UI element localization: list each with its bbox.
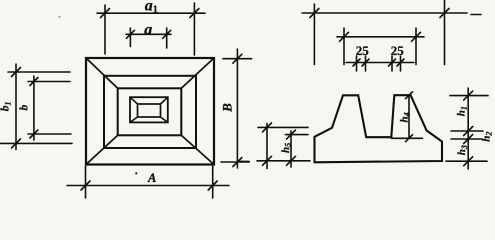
section top dimension line 1: overshoot dash: [471, 14, 481, 16]
svg-text:A: A: [147, 171, 156, 185]
svg-text:a1: a1: [145, 0, 158, 16]
plan view: cup corner diagonal bottom-left: [130, 117, 138, 122]
plan view: cup corner diagonal top-left: [130, 97, 138, 104]
dimension b: bottom tick: [30, 130, 38, 138]
dimension h5 outer: top extension line: [258, 126, 308, 128]
right chain: tick 3: [464, 135, 473, 144]
right chain: extension line at base bottom: [446, 160, 487, 162]
section top dimension 2: left extension line: [343, 28, 345, 65]
right chain: tick 4: [464, 157, 473, 166]
dimension a1: dimension line: [97, 12, 205, 14]
dimension h5 inner: top tick: [287, 130, 296, 139]
plan view: corner diagonal bottom-right: [181, 135, 214, 164]
dimension b1: bottom tick: [12, 139, 21, 148]
plan view: cup opening outer rectangle: [130, 97, 168, 122]
dimension a1: right extension line: [193, 3, 195, 55]
dimension h5 outer: bottom extension dash: [240, 160, 249, 162]
svg-text:h3: h3: [456, 145, 469, 155]
right chain: extension line at shoulder: [451, 130, 483, 132]
plan view: cup opening inner rectangle: [138, 104, 161, 117]
dimension 25 right: tick 1: [389, 59, 396, 66]
dimension 25 left: tick 1: [353, 59, 360, 66]
dimension h4: bottom extension line: [392, 137, 423, 139]
dimension b: top tick: [30, 78, 38, 86]
section top dimension 2: right extension line: [415, 28, 417, 65]
dimension a: right tick: [163, 30, 171, 38]
dimension 25 right: tick 2: [397, 59, 404, 66]
dimension b: top extension line: [28, 81, 70, 83]
dimension a1: right tick: [190, 9, 199, 18]
svg-text:a: a: [144, 22, 152, 39]
dimension b1: dimension line: [15, 64, 17, 150]
svg-text:h1: h1: [456, 106, 469, 116]
dimension h4: bottom tick: [406, 135, 413, 142]
dimension a: right extension line: [166, 28, 168, 48]
dimension h5 inner: bottom tick: [287, 156, 296, 165]
plan view: footing outer rectangle: [86, 58, 214, 165]
dimension 25 right: extension line 1: [391, 56, 393, 71]
dimension a: dimension line: [126, 33, 171, 35]
svg-text:h2: h2: [481, 132, 494, 142]
dimension 25 left: tick 2: [362, 59, 369, 66]
dimension B: bottom extension line: [221, 161, 249, 163]
dimension b1: top extension line: [8, 71, 70, 73]
dimension a1: left tick: [101, 9, 110, 18]
dimension B: dimension line: [236, 49, 238, 168]
svg-text:h4: h4: [399, 112, 412, 122]
section top dimension 1: right tick: [440, 9, 449, 18]
section top dimension 1: right extension line: [444, 0, 446, 65]
right chain: tick 1: [464, 91, 473, 100]
dimension a: left tick: [126, 30, 134, 38]
right chain: dimension line: [467, 88, 469, 169]
dimension 25 left: extension line 2: [365, 56, 367, 71]
plan view: pedestal top rectangle: [104, 76, 196, 148]
dimension h4: top tick: [406, 92, 413, 99]
svg-text:b1: b1: [0, 102, 12, 112]
dimension a: left extension line: [129, 28, 131, 47]
svg-text:25: 25: [356, 43, 370, 58]
dimension h5 inner: dimension line: [290, 131, 292, 167]
right chain: extension line at cup top: [450, 95, 488, 97]
dimension A: left extension line: [85, 166, 87, 198]
dimension 25 right: extension line 2: [400, 56, 402, 71]
section top dimension 2: right tick: [412, 32, 421, 41]
dimension 25 pair: dimension line: [346, 62, 414, 64]
dimension A: right extension line: [212, 166, 214, 198]
section view: foundation outline: [315, 95, 443, 162]
dimension B: top extension line: [223, 58, 252, 60]
right chain: tick 2: [464, 127, 473, 136]
plan view: corner diagonal top-left: [86, 58, 118, 88]
ink speck top-left: [59, 16, 61, 18]
svg-text:h5: h5: [280, 143, 293, 153]
plan view: corner diagonal bottom-left: [86, 135, 118, 164]
section top dimension line 1: [302, 12, 467, 14]
dimension h5 inner: top extension line: [286, 134, 309, 136]
section top dimension 2: left tick: [340, 32, 349, 41]
dimension h5 outer: top tick: [263, 123, 272, 132]
dimension A: left tick: [81, 181, 90, 190]
right chain: extension line at cup bottom: [451, 138, 482, 140]
dimension b1: bottom extension line: [0, 142, 72, 144]
plan view: cup corner diagonal top-right: [161, 97, 168, 104]
dimension A: dimension line: [67, 185, 229, 187]
dimension b1: top tick: [12, 68, 21, 77]
ink speck near label A: [135, 172, 137, 174]
plan view: third step rectangle: [118, 88, 182, 135]
svg-text:b: b: [18, 105, 30, 111]
dimension h5 outer: bottom extension line: [257, 160, 310, 162]
svg-text:B: B: [219, 103, 234, 113]
plan view: cup corner diagonal bottom-right: [161, 117, 168, 122]
plan view: corner diagonal top-right: [181, 58, 214, 88]
dimension h5 outer: dimension line: [266, 124, 268, 169]
section top dimension line 2: [337, 36, 424, 38]
dimension B: top tick: [233, 54, 242, 63]
dimension A: right tick: [208, 181, 217, 190]
svg-text:25: 25: [391, 43, 405, 58]
dimension 25 left: extension line 1: [356, 56, 358, 71]
section top dimension 1: left tick: [310, 9, 319, 18]
dimension h5 outer: bottom tick: [263, 156, 272, 165]
dimension B: bottom tick: [233, 158, 242, 167]
dimension b: dimension line: [33, 76, 35, 140]
dimension h4: dimension line: [408, 95, 410, 138]
dimension b: bottom extension line: [28, 133, 71, 135]
dimension a1: left extension line: [104, 5, 106, 54]
section top dimension 1: left extension line: [313, 4, 315, 65]
